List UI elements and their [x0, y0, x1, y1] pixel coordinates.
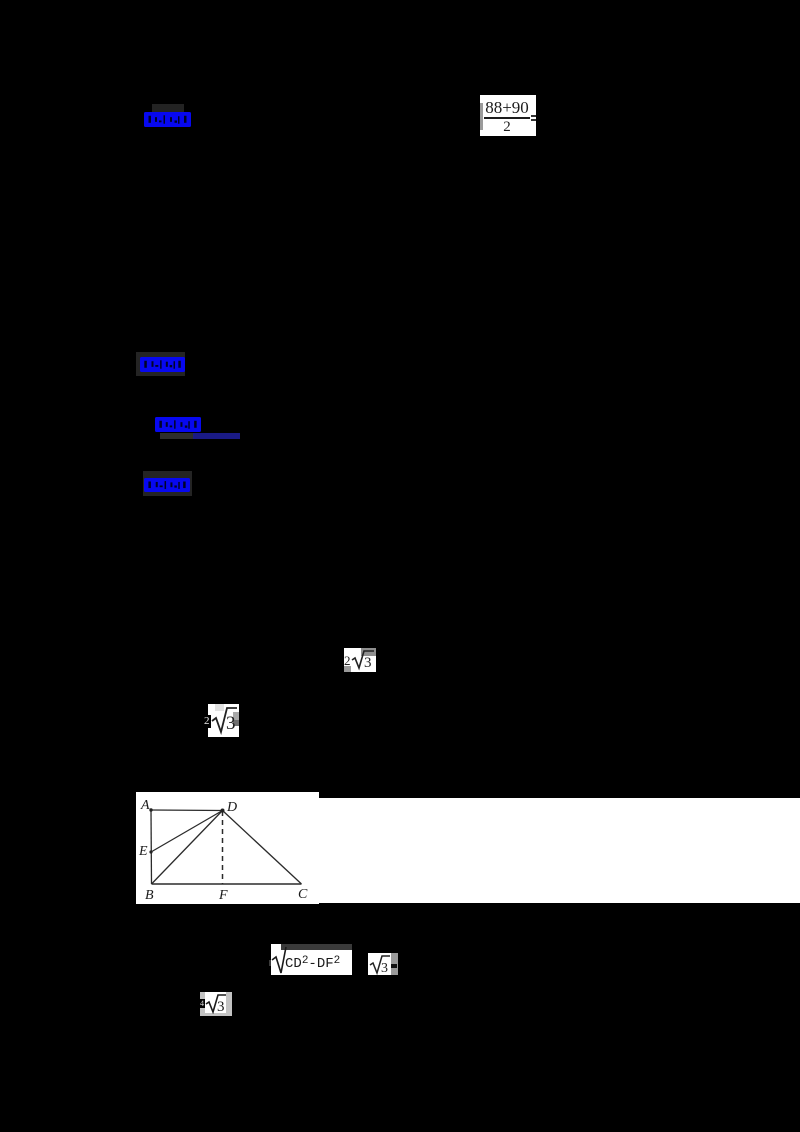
wire BC	[152, 883, 302, 885]
formula image sqrt(CD^2-DF^2)	[269, 960, 273, 966]
svg-text:B: B	[145, 888, 154, 903]
svg-text:3: 3	[381, 961, 388, 975]
formula image sqrt3 (after equals)	[368, 953, 391, 975]
label1 blue section tag (line with median formula)	[152, 104, 184, 112]
formula image sqrt3 (last line)	[200, 992, 232, 1016]
svg-text:F: F	[218, 888, 228, 903]
svg-text:3: 3	[226, 713, 236, 734]
wire AD	[151, 809, 223, 812]
figure white background (right extension to page edge)	[319, 798, 800, 903]
formula image 2sqrt3 (first)	[344, 648, 376, 672]
wire DC	[223, 811, 302, 885]
node E	[149, 850, 152, 853]
svg-text:A: A	[140, 798, 150, 813]
wire AB	[150, 810, 153, 884]
geometry figure white background (left, image)	[136, 792, 319, 904]
svg-text:E: E	[138, 844, 148, 859]
formula image (88+90)/2	[480, 95, 536, 136]
wire BD	[152, 811, 223, 885]
wire ED	[151, 811, 223, 853]
node A	[149, 808, 152, 811]
label4 blue section tag	[143, 471, 192, 496]
label3 blue section tag with link underline	[155, 417, 201, 432]
node D	[221, 809, 225, 813]
formula image 2sqrt3 (second)	[208, 704, 239, 737]
label2 blue section tag	[136, 352, 185, 376]
geometry figure drawing	[136, 792, 319, 904]
wire DF dashed	[222, 811, 224, 884]
svg-text:D: D	[226, 800, 237, 815]
svg-text:C: C	[298, 887, 308, 902]
svg-text:3: 3	[364, 655, 372, 671]
svg-text:3: 3	[217, 999, 225, 1014]
